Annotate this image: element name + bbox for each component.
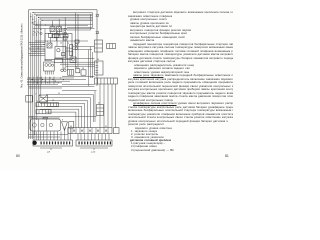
wire top bus 2 (35, 13, 93, 15)
figure border top (29, 9, 98, 11)
wire corner bundle 3 (40, 103, 85, 127)
relay K2 hatched (57, 27, 62, 32)
wire junction band 2 (27, 79, 86, 81)
E1 divider 2 (46, 119, 48, 131)
wire link row 2 (35, 25, 88, 27)
terminal tab a (96, 14, 99, 16)
wire drop left strip 1 (33, 132, 35, 141)
wire K1 to F1 (50, 32, 52, 34)
switch pack S2 stack (70, 45, 73, 56)
XP1 label brace (40, 148, 62, 150)
switch strip SB1 long thin box (36, 103, 59, 107)
cluster pins (44, 71, 46, 75)
wire run y137 (29, 136, 61, 138)
wire drop left strip 11 (64, 128, 66, 140)
wire bus right drop (92, 13, 94, 28)
node left bus 4 (36, 24, 37, 25)
X3 contact circles (73, 130, 75, 132)
wire drop left strip 2 (35, 132, 37, 141)
wire drop right strip 1 (77, 134, 79, 140)
wire drop center 5 (77, 14, 79, 69)
wire top bus 6 (42, 20, 93, 22)
wire switch pack to right (73, 46, 95, 48)
svg-text:2: 2 (35, 94, 36, 96)
fuse row box long (52, 34, 68, 37)
wire drop right strip 7 (98, 134, 100, 140)
wire drop right strip 9 (105, 134, 107, 140)
junction band nodes (29, 77, 30, 78)
connector X4 small box right (114, 128, 120, 134)
wire center h76 (62, 75, 95, 77)
node top bus 5 left (40, 18, 41, 19)
wire drop left strip 7 (50, 132, 52, 141)
wire drop left strip 4 (40, 132, 42, 141)
E1 lamp circle 1 (32, 123, 36, 127)
node top bus 3 left (36, 15, 37, 16)
svg-text:18: 18 (82, 68, 84, 70)
node top bus 1 left (32, 12, 33, 13)
svg-text:5: 5 (45, 25, 46, 27)
wire right vertical 2 (103, 84, 105, 128)
SB1 ticks (38, 103, 40, 107)
junction dots middle rows (44, 44, 45, 45)
wire K2 to F2 (55, 32, 57, 34)
ignition switch S1 box (55, 47, 66, 59)
aux box with circle (70, 57, 76, 63)
svg-text:12: 12 (60, 43, 62, 45)
wire right vertical 3 (107, 84, 109, 128)
connector X1 small box top right (107, 44, 116, 49)
svg-text:11: 11 (58, 93, 60, 95)
svg-text:3: 3 (76, 67, 77, 69)
wire bus right drop 2 (90, 14, 92, 30)
svg-text:6: 6 (37, 101, 38, 103)
wire top bus 1 (33, 12, 93, 14)
wire row y41 (35, 40, 88, 42)
svg-text:34: 34 (70, 126, 72, 128)
lamp HL2 (64, 32, 66, 34)
switch block S4 with pins (95, 61, 104, 75)
resistor R1 box (55, 59, 63, 63)
S4 pin ticks (96, 62, 99, 64)
wire drop left strip 3 (37, 132, 39, 141)
wire cluster to switch pack (66, 47, 70, 49)
gauge G2 (48, 64, 51, 67)
wire drop right strip 2 (80, 134, 82, 140)
wire drop right strip 8 (101, 134, 103, 140)
node top bus 2 left (34, 14, 35, 15)
svg-text:21: 21 (63, 68, 65, 70)
wire drop shelf 3 (59, 29, 61, 37)
wire bundle top corner (46, 95, 93, 122)
wire center vertical 8 (92, 52, 94, 78)
connector strip X3 cells (68, 128, 112, 134)
wire bundle vertical pair (94, 91, 96, 122)
wire corner bundle 5 (40, 109, 79, 127)
wire fuse row down (50, 37, 52, 43)
fuse F1 box (48, 33, 52, 37)
wire drop right strip 4 (87, 134, 89, 140)
wire left bus vertical 1 (30, 13, 32, 139)
wire run y116 (29, 115, 97, 117)
wire rows into cluster (29, 42, 46, 44)
node top bus 6 left (41, 20, 42, 21)
wire drop left strip 13 (70, 128, 72, 140)
connector strip X2 cells (95, 78, 118, 84)
wire drop left strip 12 (67, 128, 69, 140)
wire drop left strip 10 (60, 132, 62, 141)
wire corner bundle 2 (46, 101, 88, 128)
terminal tab b (96, 32, 99, 34)
wire drop left strip 5 (43, 132, 45, 141)
relay block U1 big outline (45, 34, 72, 60)
wire left bus vertical 5 (38, 19, 40, 103)
motor M1 box with cross (39, 95, 48, 102)
wire cluster to right bus (67, 27, 93, 29)
wire junction band 5 (27, 83, 58, 85)
wire top bus 4 (38, 16, 92, 18)
page number 80 (16, 154, 20, 158)
wire drop center 2 (64, 29, 66, 69)
figure border right upper (96, 10, 98, 86)
wire link row (33, 23, 93, 25)
instrument cluster P1 box (44, 62, 55, 71)
wire right vertical 4 (111, 84, 113, 128)
wire corner bundle 4 (46, 106, 82, 127)
relay K3 hatched (47, 43, 52, 48)
svg-text:8: 8 (62, 120, 63, 122)
lamp HL4 (75, 43, 78, 46)
wire center h66 (66, 65, 95, 67)
svg-text:Рис. 43. Схема электрооборудов: Рис. 43. Схема электрооборудования ВАЗ-2… (20, 23, 23, 88)
relay K1 hatched (50, 27, 55, 32)
XP1 black pins (41, 142, 42, 145)
sensor box B3 (76, 69, 80, 73)
wire run y118 (29, 117, 61, 119)
E1 lamp circle 2 (41, 123, 44, 126)
wire drop left strip 9 (57, 132, 59, 141)
svg-text:24: 24 (97, 59, 99, 61)
wire drop to K1 (52, 21, 54, 27)
coil box T1 (68, 70, 74, 76)
svg-text:9: 9 (68, 43, 69, 45)
E1 top tab (43, 117, 48, 119)
horn B2 triangle (62, 122, 68, 131)
distributor circle V2 (64, 69, 67, 72)
wire drop center 4 (75, 13, 77, 69)
XP2 label brace (80, 148, 108, 150)
wire left bus vertical 6 (40, 21, 42, 96)
connector strip XP1 outline (33, 140, 73, 146)
switch strip SB2 thin box (36, 110, 51, 114)
switch symbol SA2 (33, 31, 36, 36)
ignition switch rotor circle (57, 49, 60, 52)
figure border left (28, 10, 30, 139)
wire drop to K2 (58, 19, 60, 27)
page number 81 (225, 154, 229, 158)
wire drop center 3 (66, 41, 68, 71)
wire junction band 3 (27, 80, 70, 82)
wire center h84 run (62, 84, 95, 86)
lamp HL1 (64, 28, 66, 30)
wire center h62 (60, 61, 95, 63)
wire drop center 6 (88, 50, 90, 87)
switch SA1 box (63, 36, 67, 40)
wire right vertical 5 (115, 84, 117, 128)
sensor box B4 (81, 70, 86, 75)
lamp HL3 (40, 32, 42, 34)
svg-text:37: 37 (105, 126, 107, 128)
switch symbol SA3 (37, 31, 40, 36)
XP2 black pins (79, 142, 80, 145)
wire drop right strip 10 (108, 134, 110, 140)
wire center h58 run (66, 58, 95, 60)
E1 lamp circle 3 (49, 123, 52, 126)
lamp HL5 (75, 47, 78, 50)
E1 divider 1 (38, 119, 40, 131)
wire junction band 4 (27, 82, 62, 84)
wire run y86 (29, 85, 95, 87)
wire run y134.5 (29, 134, 69, 136)
svg-text:7: 7 (52, 25, 53, 27)
svg-text:ш10: ш10 (91, 151, 96, 153)
node left bus 3 (34, 21, 35, 22)
node left bus 1 (30, 16, 31, 17)
switch block S3 tall box (95, 40, 103, 52)
wire left bus vertical 2 (32, 14, 34, 139)
wire drop left strip 6 (46, 132, 48, 141)
wire left bus vertical 3 (34, 16, 36, 135)
node left bus 5 (38, 26, 39, 27)
svg-text:23: 23 (91, 76, 93, 78)
wire center h90 run (62, 90, 97, 92)
wire junction band 1 (27, 77, 74, 79)
wire drop center 1 (62, 29, 64, 69)
distributor circle V1 (61, 69, 64, 72)
wire left bus vertical 4 (36, 17, 38, 120)
node top bus 4 left (38, 17, 39, 18)
connector strip XP2 outline (76, 140, 112, 146)
relay box K4 right mid (97, 105, 104, 116)
wire center h64 (60, 63, 95, 65)
light unit E1 rounded block (30, 119, 61, 131)
wire drop right strip 6 (94, 134, 96, 140)
svg-text:15: 15 (44, 60, 46, 62)
capacitor C1 box (69, 122, 74, 129)
wire cluster row 2 (67, 29, 91, 31)
svg-text:27: 27 (98, 103, 100, 105)
gauge G1 (45, 64, 48, 67)
wire drop left strip 8 (53, 132, 55, 141)
fuse F2 box (54, 33, 58, 37)
wire top bus 3 (37, 15, 93, 17)
sensor B1 box on left edge (26, 96, 33, 103)
wire drop to HL1 (64, 17, 66, 28)
wire drop shelf 1 (44, 29, 46, 44)
label above cluster (45, 60, 52, 62)
wire drop center 7 (90, 47, 92, 79)
wire corner bundle 1 (40, 98, 90, 128)
wire run y88 (29, 87, 63, 89)
wire right vertical 1 (99, 84, 101, 128)
svg-text:ш9: ш9 (47, 151, 51, 153)
svg-text:29: 29 (31, 117, 33, 119)
wire shelf y28.5 (33, 28, 95, 30)
svg-text:4: 4 (47, 41, 48, 43)
ignition switch contact rect (62, 53, 65, 56)
wire top bus 5 (40, 18, 92, 20)
wire drop right strip 3 (84, 134, 86, 140)
tiny box on run (75, 40, 79, 43)
node left bus 6 (40, 29, 41, 30)
wire corner bundle 6 (46, 112, 76, 128)
wire drop shelf 2 (56, 32, 58, 47)
gauge G3 (52, 64, 54, 66)
wire drop right strip 5 (91, 134, 93, 140)
grommet big black dot (32, 141, 36, 145)
svg-text:16: 16 (52, 100, 54, 102)
node left bus 2 (32, 19, 33, 20)
junction band ticks (32, 77, 34, 85)
